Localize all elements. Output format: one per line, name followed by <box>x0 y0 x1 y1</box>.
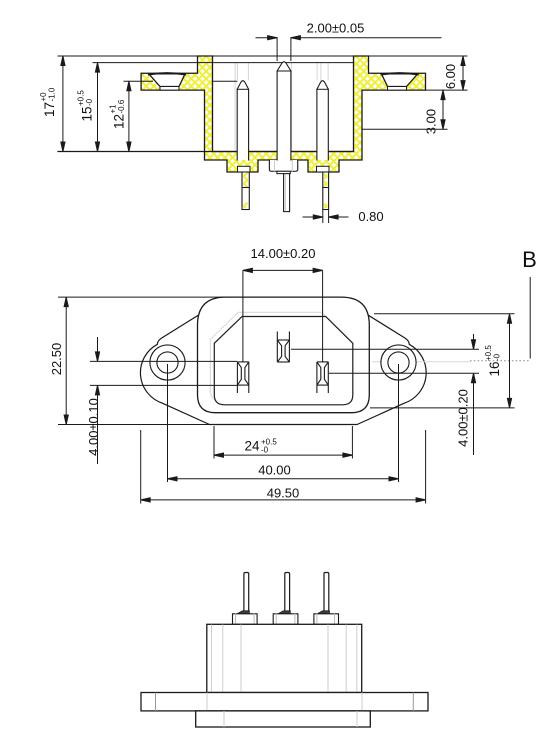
wire top edge line of body / extension line y=56 <box>58 55 467 57</box>
pin tail right <box>324 573 329 612</box>
22.50 bottom extension line <box>58 424 215 426</box>
svg-text:-0: -0 <box>261 446 269 455</box>
wire side-pin-tip extension line y=81.3 <box>124 80 153 82</box>
countersink left (white cut) <box>149 74 185 87</box>
pin tail center <box>285 573 290 612</box>
dimension 0.80 <box>303 210 348 223</box>
boss stub <box>277 171 290 173</box>
dimension 4.00±0.20 (right) <box>291 334 479 455</box>
dimension 4.00±0.10 (left) <box>90 337 237 464</box>
wire floor top line y=151.5 <box>58 151 354 153</box>
flange outline <box>140 297 426 424</box>
svg-text:14.00±0.20: 14.00±0.20 <box>251 246 316 261</box>
countersink right (white cut) <box>382 74 418 87</box>
svg-text:2.00±0.05: 2.00±0.05 <box>307 21 365 36</box>
dimension 15 +0.5/-0 <box>95 63 99 152</box>
dimension 14.00±0.20 <box>243 268 323 361</box>
mounting hole right <box>381 345 416 380</box>
pedestal center <box>273 614 298 625</box>
svg-text:-0: -0 <box>493 353 502 361</box>
22.50 top extension line <box>58 296 240 298</box>
flange bar <box>141 693 428 711</box>
svg-text:6.00: 6.00 <box>443 64 458 89</box>
dimension 6.00 <box>426 56 468 90</box>
pedestal left <box>233 614 258 625</box>
dimension 40.00 <box>168 364 399 482</box>
pedestal right <box>314 614 339 625</box>
pin N front glyph (right) <box>317 362 328 393</box>
dimension 22.50 <box>64 297 68 424</box>
svg-text:0.80: 0.80 <box>358 209 383 224</box>
recess outline <box>214 317 352 405</box>
svg-text:B: B <box>522 247 537 272</box>
svg-text:12: 12 <box>112 114 127 129</box>
dimension 12 +1/-0.6 <box>127 81 131 151</box>
pin tail center <box>284 174 290 212</box>
pin collar right <box>317 611 329 614</box>
pin L front glyph (left) <box>237 362 248 393</box>
pin L (left) <box>237 81 248 160</box>
svg-text:49.50: 49.50 <box>267 486 300 501</box>
pin tail left <box>244 573 249 612</box>
svg-text:24: 24 <box>244 439 260 454</box>
pin collar left <box>237 611 249 614</box>
mounting hole left <box>150 345 185 380</box>
svg-text:15: 15 <box>80 106 95 121</box>
pin channel guide lines (light) <box>235 63 328 151</box>
pin E front glyph (center) <box>277 332 289 363</box>
svg-text:3.00: 3.00 <box>424 109 439 134</box>
dimension 16 +0.5/-0 (right) <box>370 314 515 408</box>
body block <box>207 624 362 692</box>
dimension 3.00 <box>362 90 447 129</box>
hole centre light line (right) <box>372 361 470 363</box>
pin N (right) <box>317 81 328 160</box>
center earth-pin holder boss (white) <box>269 160 297 171</box>
dimension 17 +0/-1.0 <box>61 56 65 152</box>
svg-text:-1.0: -1.0 <box>48 87 57 101</box>
body face (rounded rect) <box>198 297 370 413</box>
pin tail right <box>323 172 329 210</box>
dimension 24 +0.5/0 <box>214 426 352 459</box>
pin E (center) <box>277 62 291 160</box>
pin collar center <box>278 611 290 614</box>
svg-text:17: 17 <box>42 102 57 117</box>
svg-text:22.50: 22.50 <box>49 343 64 376</box>
recess highlight (light offset) <box>210 312 348 400</box>
notch right pin block <box>317 166 330 172</box>
svg-text:16: 16 <box>487 361 502 376</box>
wire pin-tip extension line y=62.6 <box>93 62 354 64</box>
svg-text:-0: -0 <box>85 98 94 106</box>
pin tail left <box>242 172 249 210</box>
dimension 2.00±0.05 <box>256 36 441 61</box>
svg-text:-0.6: -0.6 <box>117 99 126 113</box>
svg-text:4.00±0.10: 4.00±0.10 <box>86 398 101 456</box>
svg-text:4.00±0.20: 4.00±0.20 <box>456 389 471 447</box>
dimension 49.50 <box>141 430 426 504</box>
lower bar <box>196 711 371 727</box>
body cross-section (hatched) <box>141 56 425 172</box>
notch left pin block <box>238 166 251 172</box>
svg-text:40.00: 40.00 <box>258 463 291 478</box>
